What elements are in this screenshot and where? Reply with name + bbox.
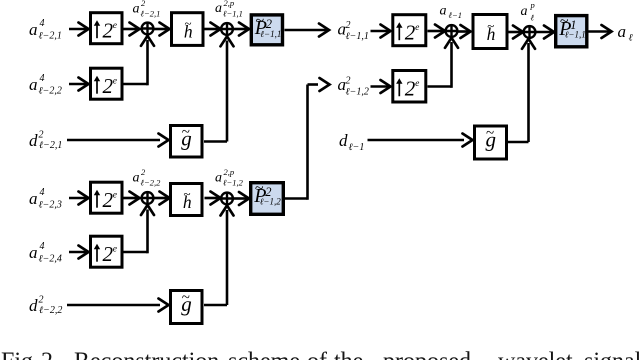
upsampler U-B1 (up 2^e) <box>91 182 123 213</box>
filter g-A (g~) <box>171 124 203 157</box>
svg-text:signal: signal <box>584 349 640 360</box>
wire a4_L-2,4 to upsampler U-B2 <box>69 246 89 259</box>
svg-text:scheme: scheme <box>228 349 300 360</box>
svg-text:2,p: 2,p <box>224 167 235 177</box>
svg-text:a: a <box>29 243 38 262</box>
wire adder S-A2 to projection P-A <box>234 23 250 36</box>
svg-text:ℓ−1,2: ℓ−1,2 <box>260 197 282 207</box>
svg-text:ℓ−2,1: ℓ−2,1 <box>39 140 62 151</box>
svg-text:ℓ−1,1: ℓ−1,1 <box>346 31 369 42</box>
wire filter g-B up to adder S-B2 <box>204 206 234 306</box>
node a4_L-2,3 (input label) <box>29 187 62 211</box>
svg-text:ℓ−1,1: ℓ−1,1 <box>565 30 586 40</box>
wire a4_L-2,1 to upsampler U-A1 <box>69 23 89 36</box>
svg-text:e: e <box>113 21 117 31</box>
svg-text:Fig.: Fig. <box>1 349 39 360</box>
upsampler U-A2 (up 2^e) <box>91 68 123 99</box>
wire upsampler U-A2 up to adder S-A1 <box>123 36 154 86</box>
adder S-A2 <box>221 23 233 35</box>
svg-text:ℓ−1: ℓ−1 <box>449 10 463 20</box>
node a2p_L-1,1 (label above adder S-A2) <box>215 0 243 19</box>
svg-text:e: e <box>113 77 117 87</box>
svg-text:2: 2 <box>39 130 44 141</box>
svg-text:e: e <box>113 245 117 255</box>
node a2p_L-1,2 (label above adder S-B2) <box>215 167 244 188</box>
adder S-C1 <box>446 25 458 37</box>
wire projection P-A output to node a2_L-1,1 <box>285 24 330 37</box>
node a4_L-2,1 (input label) <box>29 18 62 42</box>
svg-text:a: a <box>618 22 627 41</box>
svg-text:ℓ−2,1: ℓ−2,1 <box>39 31 62 42</box>
wire d_L-1 to filter g-C <box>368 134 473 147</box>
svg-text:e: e <box>415 79 419 89</box>
wire d2_L-2,1 to filter g-A <box>67 134 169 147</box>
wire upsampler U-B1 to adder S-B1 <box>123 192 140 205</box>
svg-text:the: the <box>334 349 363 360</box>
filter h-C (h~) <box>473 15 507 49</box>
node a_L-1 (label above adder S-C1) <box>440 4 463 21</box>
filter g-B (g~) <box>171 290 203 324</box>
svg-text:ℓ−2,4: ℓ−2,4 <box>39 254 62 265</box>
svg-text:~: ~ <box>182 290 190 306</box>
svg-text:4: 4 <box>40 18 45 29</box>
node a2_L-2,2 (label above adder S-B1) <box>133 167 162 188</box>
wire adder S-B2 to projection P-B <box>234 192 250 205</box>
svg-text:Reconstruction: Reconstruction <box>74 349 219 360</box>
svg-text:d: d <box>29 131 38 150</box>
svg-text:~: ~ <box>486 126 494 142</box>
svg-text:a: a <box>215 1 222 16</box>
projection block P1_L-1,1 <box>556 13 587 47</box>
svg-text:a: a <box>133 171 140 186</box>
svg-text:ℓ−1,2: ℓ−1,2 <box>223 178 244 188</box>
projection block P2_L-1,2 <box>251 180 284 214</box>
wire adder S-C1 to filter h-C <box>458 25 471 38</box>
svg-text:~: ~ <box>256 12 265 29</box>
svg-text:a: a <box>521 4 528 19</box>
svg-text:2: 2 <box>346 76 351 87</box>
wire upsampler U-A1 to adder S-A1 <box>123 23 140 36</box>
wire projection P-C output to node a_L <box>589 25 612 38</box>
wire a4_L-2,3 to upsampler U-B1 <box>69 192 89 205</box>
svg-text:~: ~ <box>182 124 190 140</box>
wire filter h-C to adder S-C2 <box>509 26 524 39</box>
svg-text:~: ~ <box>487 18 494 33</box>
svg-text:a: a <box>29 20 38 39</box>
node a4_L-2,4 (input label) <box>29 241 62 265</box>
adder S-B1 <box>142 192 154 204</box>
svg-text:4: 4 <box>40 187 45 198</box>
svg-text:ℓ−2,2: ℓ−2,2 <box>39 86 62 97</box>
svg-text:wavelet: wavelet <box>498 349 573 360</box>
svg-text:ℓ−1,1: ℓ−1,1 <box>223 9 243 19</box>
node d2_L-2,2 (input label) <box>29 295 62 317</box>
wire upsampler U-C2 up to adder S-C1 <box>428 38 459 88</box>
svg-text:a: a <box>215 171 222 186</box>
svg-text:~: ~ <box>184 15 191 30</box>
wire adder S-A1 to filter h-A <box>154 23 170 36</box>
adder S-A1 <box>142 23 154 35</box>
node a4_L-2,2 (input label) <box>29 73 62 97</box>
upsampler U-B2 (up 2^e) <box>91 236 123 267</box>
svg-text:a: a <box>29 75 38 94</box>
wire filter g-A up to adder S-A2 <box>204 36 234 141</box>
adder S-B2 <box>221 193 233 205</box>
upsampler U-A1 (up 2^e) <box>91 13 123 44</box>
svg-text:ℓ−1,2: ℓ−1,2 <box>346 86 369 97</box>
wire projection P-B output up to node a2_L-1,2 <box>285 78 330 200</box>
wire a4_L-2,2 to upsampler U-A2 <box>69 78 89 91</box>
filter h-A (h~) <box>172 13 204 46</box>
filter h-B (h~) <box>171 184 203 216</box>
svg-text:2: 2 <box>346 20 351 31</box>
svg-text:d: d <box>29 296 38 315</box>
wire filter g-C up to adder S-C2 <box>508 39 535 142</box>
wire a2_L-1,2 to upsampler U-C2 <box>371 80 391 93</box>
svg-text:ℓ−2,2: ℓ−2,2 <box>39 305 62 316</box>
svg-text:a: a <box>440 4 447 19</box>
svg-text:e: e <box>415 23 419 33</box>
node d2_L-2,1 (input label) <box>29 130 62 152</box>
svg-text:2,p: 2,p <box>224 0 235 8</box>
filter g-C (g~) <box>475 126 507 160</box>
svg-text:~: ~ <box>183 186 190 201</box>
wire upsampler U-C1 to adder S-C1 <box>428 25 446 38</box>
svg-text:4: 4 <box>40 241 45 252</box>
svg-text:ℓ−2,2: ℓ−2,2 <box>141 178 162 188</box>
node d_L-1 (input label) <box>339 131 364 153</box>
upsampler U-C2 (up 2^e) <box>393 71 426 103</box>
node ap_L (label above adder S-C2) <box>521 0 535 23</box>
wire a2_L-1,1 to upsampler U-C1 <box>371 25 391 38</box>
wire upsampler U-B2 up to adder S-B1 <box>123 205 154 253</box>
svg-text:proposed: proposed <box>383 349 471 360</box>
svg-text:~: ~ <box>255 180 264 197</box>
svg-text:ℓ−2,1: ℓ−2,1 <box>141 9 161 19</box>
node a2_L-2,1 (label above adder S-A1) <box>133 0 161 19</box>
svg-text:ℓ−2,3: ℓ−2,3 <box>39 200 62 211</box>
wire filter h-A to adder S-A2 <box>205 23 221 36</box>
projection block P2_L-1,1 <box>251 12 282 44</box>
caption Fig. 2 (clipped at bottom edge) <box>1 349 640 360</box>
svg-text:e: e <box>113 191 117 201</box>
svg-text:ℓ: ℓ <box>531 13 535 23</box>
svg-text:ℓ−1,1: ℓ−1,1 <box>260 29 281 39</box>
wire adder S-C2 to projection P-C <box>536 26 555 39</box>
svg-text:of: of <box>307 349 327 360</box>
svg-text:a: a <box>29 189 38 208</box>
svg-text:2.: 2. <box>41 349 59 360</box>
wire filter h-B to adder S-B2 <box>205 192 221 205</box>
node a2_L-1,1 (input label) <box>338 20 369 42</box>
svg-text:2: 2 <box>39 295 44 306</box>
adder S-C2 <box>524 26 536 38</box>
svg-text:4: 4 <box>40 73 45 84</box>
node a_L (output label) <box>618 22 633 43</box>
wire adder S-B1 to filter h-B <box>154 192 170 205</box>
wire d2_L-2,2 to filter g-B <box>67 299 169 312</box>
node a2_L-1,2 (input label) <box>338 75 369 97</box>
upsampler U-C1 (up 2^e) <box>393 15 426 46</box>
svg-text:a: a <box>133 2 140 17</box>
svg-text:ℓ−1: ℓ−1 <box>349 142 365 153</box>
svg-text:d: d <box>339 131 348 150</box>
svg-text:p: p <box>530 0 535 10</box>
svg-text:ℓ: ℓ <box>629 32 633 43</box>
svg-text:~: ~ <box>560 13 569 30</box>
